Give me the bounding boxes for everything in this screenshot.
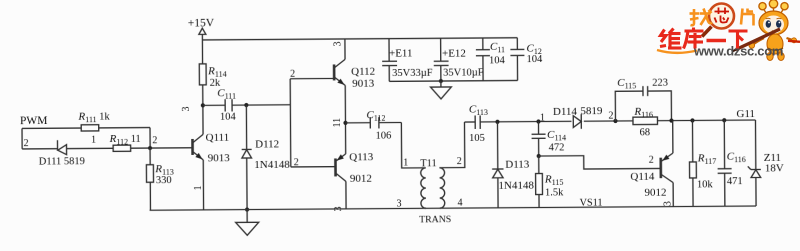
svg-text:C111: C111 bbox=[217, 87, 236, 101]
junction ground node under E12 bbox=[439, 79, 443, 83]
resistor R115 bbox=[536, 173, 565, 198]
pin 2 (T11 secondary top) bbox=[457, 156, 462, 167]
svg-text:Q112: Q112 bbox=[351, 66, 375, 78]
watermark dzsc logo bbox=[657, 0, 800, 61]
capacitor C115 bbox=[615, 77, 671, 121]
wire R115 drop bbox=[538, 156, 540, 207]
svg-text:18V: 18V bbox=[765, 162, 784, 174]
svg-text:T11: T11 bbox=[420, 158, 437, 169]
capacitor C114 bbox=[531, 121, 566, 156]
red text xia bbox=[729, 31, 748, 49]
svg-text:+E11: +E11 bbox=[389, 47, 413, 59]
svg-text:R115: R115 bbox=[544, 173, 564, 187]
svg-text:2: 2 bbox=[649, 155, 654, 166]
character pian (piece) bbox=[741, 9, 754, 26]
wire Q114 collector to rail bbox=[672, 183, 674, 207]
svg-text:104: 104 bbox=[527, 54, 544, 65]
character zhao (find) bbox=[690, 9, 713, 26]
svg-text:105: 105 bbox=[469, 133, 485, 144]
svg-text:R116: R116 bbox=[633, 106, 653, 120]
pin 2 (Q114 base) bbox=[649, 155, 654, 166]
svg-text:9012: 9012 bbox=[644, 187, 666, 199]
junction R117 top bbox=[690, 118, 694, 122]
wire PWM left vertical bbox=[21, 128, 23, 148]
url text bbox=[693, 44, 783, 59]
magnifier handle bbox=[702, 27, 712, 37]
character xin (chip) in glass bbox=[715, 8, 730, 23]
svg-text:2: 2 bbox=[152, 135, 157, 146]
svg-text:1: 1 bbox=[403, 157, 408, 168]
svg-text:C115: C115 bbox=[617, 77, 636, 91]
junction C114/R115 node bbox=[537, 154, 541, 158]
mascot head bbox=[759, 11, 788, 35]
pin 3 (T11) bbox=[397, 198, 402, 209]
power +15V bbox=[188, 17, 215, 40]
svg-text:35V33µF: 35V33µF bbox=[392, 68, 433, 79]
svg-text:3: 3 bbox=[663, 201, 674, 206]
svg-text:C112: C112 bbox=[366, 109, 385, 123]
capacitor C116 bbox=[717, 120, 746, 206]
svg-text:2: 2 bbox=[294, 157, 299, 168]
svg-text:104: 104 bbox=[220, 112, 237, 123]
junction R114/C111/Q111 bbox=[201, 103, 205, 107]
wire T11 pin 2 riser bbox=[439, 122, 465, 168]
pin 11 (rotated) bbox=[332, 118, 343, 128]
diode D113 bbox=[492, 122, 535, 208]
red text yi bbox=[707, 39, 727, 42]
svg-text:D114: D114 bbox=[553, 106, 578, 118]
pin 2 (left) bbox=[24, 138, 29, 149]
capacitor E11 (electrolytic) bbox=[382, 38, 433, 81]
svg-text:+15V: +15V bbox=[188, 17, 215, 29]
pin 3 (rotated, Q114 collector) bbox=[663, 201, 674, 206]
svg-text:G11: G11 bbox=[736, 108, 755, 120]
mascot body bbox=[749, 34, 800, 61]
svg-text:1: 1 bbox=[91, 135, 96, 146]
wire Q113 base bbox=[291, 166, 336, 168]
svg-text:TRANS: TRANS bbox=[419, 214, 451, 225]
wire VS11 feedback to Q114 base bbox=[539, 155, 661, 169]
resistor R113 bbox=[146, 163, 173, 186]
junction R116 right / Q114 emitter bbox=[669, 118, 673, 122]
transistor Q111 bbox=[192, 132, 230, 165]
svg-text:3: 3 bbox=[181, 106, 192, 111]
red text wei bbox=[660, 29, 682, 49]
svg-text:D113: D113 bbox=[505, 159, 530, 171]
svg-text:1N4148: 1N4148 bbox=[498, 180, 534, 192]
svg-text:2: 2 bbox=[290, 69, 295, 80]
svg-text:1: 1 bbox=[540, 112, 545, 123]
svg-text:472: 472 bbox=[549, 142, 565, 153]
pin 2 (Q112 base) bbox=[290, 69, 295, 80]
junction C116 top bbox=[722, 118, 726, 122]
wire Q114 emitter riser bbox=[672, 121, 674, 153]
svg-text:1N4148: 1N4148 bbox=[254, 159, 290, 171]
svg-text:68: 68 bbox=[640, 127, 651, 138]
svg-text:R111 1k: R111 1k bbox=[77, 111, 110, 125]
node VS11 label bbox=[580, 198, 603, 209]
capacitor C111 bbox=[203, 87, 291, 123]
wire right vertical joining branches bbox=[149, 128, 151, 148]
mascot antennae bbox=[759, 0, 788, 13]
wire C112 to T11 pin 1 bbox=[401, 122, 425, 168]
svg-text:R112 11: R112 11 bbox=[109, 133, 141, 147]
junction D112 at rail bbox=[245, 207, 249, 211]
pin 2 (after D114) bbox=[608, 111, 613, 122]
pin 3 (rotated, at C111 node) bbox=[181, 106, 192, 111]
capacitor C11 bbox=[476, 38, 506, 81]
diode D111 bbox=[39, 140, 85, 168]
svg-text:2: 2 bbox=[24, 138, 29, 149]
wire base splitter vertical bbox=[289, 79, 292, 167]
transistor Q113 bbox=[335, 151, 374, 185]
pin 2 (Q113 base) bbox=[294, 157, 299, 168]
svg-text:1: 1 bbox=[193, 185, 204, 190]
zener Z11 bbox=[748, 152, 784, 206]
diode D114 bbox=[553, 105, 603, 129]
resistor R111 bbox=[77, 111, 110, 132]
pin 3 (rotated, Q112 collector) bbox=[332, 41, 343, 46]
svg-text:5819: 5819 bbox=[580, 105, 603, 117]
svg-text:2: 2 bbox=[608, 111, 613, 122]
svg-text:330: 330 bbox=[156, 175, 172, 186]
svg-text:9012: 9012 bbox=[350, 173, 372, 185]
svg-text:11: 11 bbox=[332, 118, 343, 128]
wire Q111 collector up bbox=[202, 105, 204, 134]
ground (below D112) bbox=[236, 209, 259, 235]
orange swoosh bbox=[657, 50, 697, 53]
wire Q111 emitter down to rail bbox=[202, 160, 204, 210]
svg-text:D111 5819: D111 5819 bbox=[39, 156, 85, 167]
resistor R114 bbox=[199, 64, 226, 89]
svg-text:106: 106 bbox=[376, 131, 392, 142]
svg-text:Q111: Q111 bbox=[206, 132, 230, 144]
pin 1 (at C114 tap) bbox=[540, 112, 545, 123]
svg-text:10k: 10k bbox=[697, 179, 714, 190]
wire top +15V rail bbox=[202, 38, 517, 40]
wire G11 corner down bbox=[754, 120, 756, 169]
wire PWM bottom branch bbox=[22, 148, 192, 149]
junction node 1 (C114 tap) bbox=[536, 119, 540, 123]
capacitor C113 bbox=[464, 103, 571, 144]
svg-text:C116: C116 bbox=[727, 151, 746, 165]
capacitor C112 bbox=[345, 109, 401, 142]
mascot pen bbox=[733, 29, 780, 51]
resistor R116 bbox=[633, 106, 658, 139]
svg-text:+E12: +E12 bbox=[442, 48, 466, 60]
wire filter bottom line bbox=[389, 79, 517, 82]
svg-text:C113: C113 bbox=[469, 103, 488, 117]
svg-text:D112: D112 bbox=[255, 138, 279, 150]
resistor R112 bbox=[109, 133, 141, 152]
junction C112 node bbox=[343, 121, 347, 125]
svg-text:R117: R117 bbox=[697, 152, 717, 166]
svg-text:Q113: Q113 bbox=[349, 151, 374, 163]
svg-text:223: 223 bbox=[652, 78, 668, 89]
svg-text:www.dzsc.com: www.dzsc.com bbox=[693, 44, 783, 59]
wire Q112 base bbox=[290, 77, 334, 79]
magnifier glass bbox=[709, 4, 734, 29]
svg-text:2: 2 bbox=[457, 156, 462, 167]
svg-text:1.5k: 1.5k bbox=[545, 187, 564, 198]
resistor R117 bbox=[689, 120, 716, 206]
pin 1 (T11 primary top) bbox=[403, 157, 408, 168]
junction D113 top bbox=[495, 120, 499, 124]
svg-text:C114: C114 bbox=[547, 129, 566, 143]
svg-text:35V10µF: 35V10µF bbox=[443, 67, 484, 78]
junction C115 left bbox=[613, 119, 617, 123]
pin 1 (rotated, Q111 emitter) bbox=[193, 185, 204, 190]
svg-text:104: 104 bbox=[489, 55, 506, 66]
pin 4 (T11) bbox=[458, 198, 463, 209]
wire Q112 collector to rail bbox=[344, 39, 346, 59]
svg-text:3: 3 bbox=[332, 41, 343, 46]
wire Q113 collector to rail bbox=[345, 181, 347, 208]
wire emitters vertical bbox=[344, 85, 346, 153]
ground (below E12) bbox=[430, 81, 451, 99]
capacitor C12 bbox=[510, 38, 543, 81]
transistor Q114 bbox=[630, 153, 673, 199]
svg-text:471: 471 bbox=[727, 176, 743, 187]
svg-text:9013: 9013 bbox=[352, 78, 375, 90]
wire PWM top branch bbox=[22, 127, 150, 130]
svg-text:PWM: PWM bbox=[20, 115, 48, 127]
transistor Q112 bbox=[334, 59, 375, 90]
junction at node 2 bbox=[148, 146, 152, 150]
svg-text:C11: C11 bbox=[490, 41, 505, 55]
pin 1 bbox=[91, 135, 96, 146]
node G11 label bbox=[736, 108, 755, 120]
diode D112 bbox=[241, 105, 290, 210]
wire ground rail bbox=[150, 206, 756, 210]
svg-text:9013: 9013 bbox=[208, 152, 231, 164]
transformer T11 bbox=[419, 158, 452, 225]
wire R113 drop to ground rail bbox=[149, 148, 151, 210]
junction D112 top bbox=[244, 103, 248, 107]
wire D114 cathode run bbox=[584, 120, 756, 121]
pin 3 (rotated, Q113 collector) bbox=[333, 206, 344, 211]
wire +15V feed / R114 branch bbox=[201, 40, 203, 105]
svg-text:Q114: Q114 bbox=[630, 171, 655, 183]
red text ku bbox=[684, 28, 704, 49]
node PWM input label bbox=[20, 115, 48, 127]
pin 2 (right of junction) bbox=[152, 135, 157, 146]
capacitor E12 (electrolytic) bbox=[434, 38, 484, 81]
svg-text:4: 4 bbox=[458, 198, 463, 209]
